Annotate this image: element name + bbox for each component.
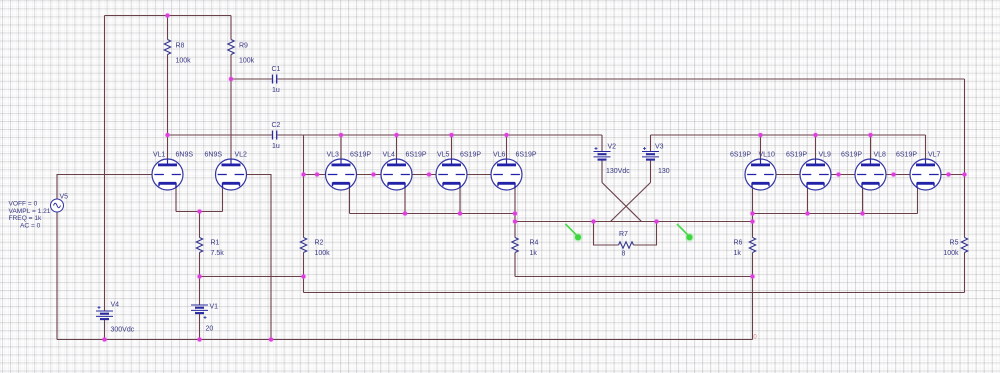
wire: anode drop VL8 bbox=[870, 135, 872, 160]
wire: R1-R2 bottom tie bbox=[200, 276, 304, 278]
wire: VL1-VL2 cathode tie bbox=[176, 211, 223, 213]
junction: R1 bottom node bbox=[198, 275, 202, 279]
svg-text:R6: R6 bbox=[734, 240, 743, 247]
resistor R6 bbox=[749, 238, 755, 253]
battery V2 plus mark bbox=[595, 147, 598, 150]
sine source V5 bbox=[51, 199, 64, 212]
triode VL3 bbox=[326, 159, 357, 190]
wire: R7 loop left bbox=[594, 222, 619, 246]
svg-text:100k: 100k bbox=[315, 250, 331, 257]
svg-text:100k: 100k bbox=[239, 58, 255, 65]
svg-text:VL3: VL3 bbox=[327, 152, 340, 159]
svg-text:VOFF = 0: VOFF = 0 bbox=[9, 201, 38, 208]
wire: anode drop VL3 bbox=[340, 135, 342, 160]
svg-text:1u: 1u bbox=[272, 143, 280, 150]
wire: VL6 cathode lead bbox=[514, 184, 516, 214]
wire: R7 loop right bbox=[634, 222, 657, 246]
battery V4 plus mark bbox=[98, 306, 101, 309]
wire: C2 output vertical down to R2 bbox=[303, 135, 305, 238]
junction: C2 drop/grid bus bbox=[302, 173, 306, 177]
wire: V3 crossover diagonal bbox=[611, 183, 651, 222]
svg-text:1u: 1u bbox=[272, 87, 280, 94]
battery V2 bbox=[594, 152, 611, 160]
svg-text:6S19P: 6S19P bbox=[350, 152, 371, 159]
battery V3 plus mark bbox=[643, 147, 646, 150]
svg-text:6S19P: 6S19P bbox=[460, 152, 481, 159]
svg-text:C2: C2 bbox=[272, 122, 281, 129]
svg-text:300Vdc: 300Vdc bbox=[111, 327, 135, 334]
junction: crossover line/R7 left bbox=[592, 220, 596, 224]
wire: VL5 cathode lead bbox=[459, 184, 461, 214]
wire: V1 bottom lead bbox=[199, 314, 201, 340]
triode VL1 bbox=[152, 159, 183, 190]
svg-text:VL5: VL5 bbox=[437, 152, 450, 159]
junction: R4-R6 bottom node bbox=[751, 275, 755, 279]
svg-text:V4: V4 bbox=[111, 302, 120, 309]
triode VL7 (mirrored) bbox=[910, 159, 941, 190]
wire: R4 to R6 bottom tie bbox=[515, 276, 753, 278]
wire: C1 right vertical drop to R5 bbox=[964, 79, 966, 238]
wire: R6 top lead bbox=[752, 214, 754, 238]
svg-text:6S19P: 6S19P bbox=[896, 152, 917, 159]
svg-text:6S19P: 6S19P bbox=[406, 152, 427, 159]
junction: anode bus/VL4 bbox=[395, 133, 399, 137]
resistor R7 (horizontal) bbox=[619, 242, 634, 248]
battery V1 plus mark bbox=[204, 316, 207, 319]
resistor R5 bbox=[961, 238, 967, 253]
junction: rail/V4 bbox=[103, 338, 107, 342]
wire: anode drop VL6 bbox=[506, 135, 508, 160]
svg-text:VL2: VL2 bbox=[235, 152, 248, 159]
junction: VL4 grid pin bbox=[372, 173, 376, 177]
svg-text:VL6: VL6 bbox=[493, 152, 506, 159]
svg-text:6S19P: 6S19P bbox=[516, 152, 537, 159]
junction: anode bus/VL10 bbox=[759, 133, 763, 137]
wire: anode drop VL10 bbox=[760, 135, 762, 160]
wire: VL2 grid to ground rail bbox=[231, 175, 271, 340]
svg-text:R1: R1 bbox=[211, 240, 220, 247]
junction: crossover line/R4 bbox=[513, 220, 517, 224]
junction: VL3 grid pin bbox=[315, 173, 319, 177]
wire: V1 top lead bbox=[199, 277, 201, 306]
wire: R8 leads and VL1 anode drop bbox=[167, 16, 169, 160]
resistor R1 bbox=[196, 238, 202, 253]
battery V1 bbox=[191, 305, 208, 313]
wire: VL1 cathode lead bbox=[175, 184, 177, 212]
current probe marker left bbox=[566, 224, 583, 242]
wire: bottom ground rail bbox=[57, 339, 753, 341]
wire: V5 to VL1 grid bbox=[57, 175, 168, 200]
triode VL8 (mirrored) bbox=[855, 159, 886, 190]
junction: anode bus/VL5 bbox=[450, 133, 454, 137]
wire: R2 bottom lead bbox=[303, 253, 305, 293]
wire: V2 top lead from left bus bbox=[601, 135, 603, 151]
svg-text:R5: R5 bbox=[950, 240, 959, 247]
svg-text:130: 130 bbox=[658, 168, 670, 175]
svg-text:V1: V1 bbox=[210, 304, 219, 311]
junction: left cathode bus/VL5 bbox=[458, 212, 462, 216]
svg-text:6N9S: 6N9S bbox=[176, 152, 194, 159]
wire: anode drop VL4 bbox=[396, 135, 398, 160]
V5 parameter text block bbox=[9, 201, 51, 230]
wire: left grid bus to VL3..VL6 bbox=[304, 174, 507, 176]
junction: anode bus/VL6 bbox=[505, 133, 509, 137]
svg-text:AC = 0: AC = 0 bbox=[20, 223, 41, 230]
wire: VL10 cathode lead bbox=[752, 184, 754, 214]
capacitor C1 bbox=[273, 75, 277, 84]
svg-text:130Vdc: 130Vdc bbox=[606, 168, 630, 175]
junction: anode bus/VL3 bbox=[339, 133, 343, 137]
wire: cathode feedback line to R5 bbox=[304, 292, 965, 294]
wire: anode drop VL5 bbox=[451, 135, 453, 160]
svg-text:100k: 100k bbox=[176, 58, 192, 65]
svg-text:1k: 1k bbox=[734, 250, 742, 257]
junction: VL5 grid pin bbox=[427, 173, 431, 177]
svg-text:6S19P: 6S19P bbox=[841, 152, 862, 159]
svg-text:V2: V2 bbox=[608, 144, 617, 151]
wire: V2 crossover diagonal bbox=[602, 183, 642, 222]
wire: VL8 cathode lead bbox=[862, 184, 864, 214]
resistor R4 bbox=[512, 238, 518, 253]
junction: rail/VL2 grid drop bbox=[269, 338, 273, 342]
svg-text:1k: 1k bbox=[530, 250, 538, 257]
wire: V3 bottom lead bbox=[650, 161, 652, 183]
wire: VL4 cathode lead bbox=[404, 184, 406, 214]
triode VL6 bbox=[491, 159, 522, 190]
junction: grid bus/C1 drop bbox=[963, 173, 967, 177]
svg-text:VL1: VL1 bbox=[153, 152, 166, 159]
wire: R6 bottom to ground rail bbox=[752, 253, 754, 340]
junction: VL1-VL2 cathodes/R1 bbox=[198, 210, 202, 214]
capacitor C2 bbox=[273, 131, 277, 140]
wire: R1 top lead bbox=[199, 212, 201, 238]
junction: right cathode bus/VL8 bbox=[861, 212, 865, 216]
wire: V4 bottom lead bbox=[104, 320, 106, 340]
wire: right cathode bus bbox=[753, 213, 918, 215]
junction: left cathode bus/VL4 bbox=[403, 212, 407, 216]
svg-text:6N9S: 6N9S bbox=[205, 152, 223, 159]
wire: VL9 cathode lead bbox=[807, 184, 809, 214]
resistor R8 bbox=[164, 40, 170, 55]
wire: VL7 cathode lead bbox=[917, 184, 919, 214]
junction: VL9 grid pin bbox=[837, 173, 841, 177]
wire: left vertical from rail down to V4 bbox=[104, 16, 106, 312]
svg-text:R7: R7 bbox=[619, 231, 628, 238]
svg-text:0: 0 bbox=[753, 335, 757, 341]
wire: R4 bottom lead bbox=[514, 253, 516, 277]
wire: C2 net from VL1 anode to left anode bus bbox=[168, 134, 603, 136]
junction: R2 bottom node bbox=[302, 275, 306, 279]
wire: right anode bus from V3 to VL7 bbox=[651, 134, 926, 136]
svg-text:V5: V5 bbox=[60, 194, 69, 201]
svg-text:20: 20 bbox=[206, 326, 214, 333]
junction: VL7 grid pin bbox=[947, 173, 951, 177]
svg-text:FREQ = 1k: FREQ = 1k bbox=[9, 215, 42, 222]
junction: R9/C1 bbox=[229, 77, 233, 81]
junction: anode bus/VL8 bbox=[869, 133, 873, 137]
triode VL5 bbox=[436, 159, 467, 190]
junction: crossover line/R6 bbox=[751, 220, 755, 224]
battery V3 bbox=[642, 152, 659, 160]
resistor R9 bbox=[228, 40, 234, 55]
svg-text:VAMPL = 1.21: VAMPL = 1.21 bbox=[9, 208, 51, 215]
svg-text:VL7: VL7 bbox=[928, 152, 941, 159]
triode VL10 (mirrored) bbox=[745, 159, 776, 190]
wire: anode drop VL9 bbox=[815, 135, 817, 160]
junction: rail/R8 bbox=[166, 14, 170, 18]
svg-text:V3: V3 bbox=[655, 144, 664, 151]
svg-text:6S19P: 6S19P bbox=[730, 152, 751, 159]
svg-text:R8: R8 bbox=[176, 43, 185, 50]
svg-text:VL10: VL10 bbox=[759, 152, 775, 159]
wire: top plate-supply rail bbox=[105, 15, 232, 17]
svg-text:100k: 100k bbox=[943, 250, 959, 257]
svg-text:7.5k: 7.5k bbox=[211, 250, 225, 257]
svg-text:R4: R4 bbox=[530, 240, 539, 247]
junction: right cathode bus/VL10/R6 bbox=[751, 212, 755, 216]
wire: R1 bottom lead to node bbox=[199, 253, 201, 277]
wire: VL2 cathode lead bbox=[222, 184, 224, 212]
resistor R2 bbox=[300, 238, 306, 253]
svg-text:VL9: VL9 bbox=[819, 152, 832, 159]
wire: V2 bottom lead bbox=[601, 161, 603, 183]
triode VL4 bbox=[381, 159, 412, 190]
svg-text:VL8: VL8 bbox=[874, 152, 887, 159]
svg-text:R9: R9 bbox=[239, 43, 248, 50]
wire: right grid bus VL10..VL7 to C1 drop bbox=[761, 174, 965, 176]
junction: VL8 grid pin bbox=[892, 173, 896, 177]
wire: R9 leads and VL2 anode drop bbox=[230, 16, 232, 160]
battery V4 bbox=[96, 311, 113, 319]
wire: V5 bottom lead to rail bbox=[56, 212, 58, 340]
junction: left cathode bus/VL6/R4 bbox=[513, 212, 517, 216]
svg-text:R2: R2 bbox=[315, 240, 324, 247]
wire: V3 top lead to right bus bbox=[650, 135, 652, 151]
wire: crossover node line bbox=[515, 221, 753, 223]
wire: R5 bottom lead bbox=[964, 253, 966, 293]
current probe marker right bbox=[677, 224, 694, 242]
wire: R4 top lead bbox=[514, 214, 516, 238]
wire: VL3 cathode lead bbox=[349, 184, 351, 214]
junction: rail/V1 bbox=[198, 338, 202, 342]
wire: C1 net from R9 node to right drop bbox=[231, 78, 965, 80]
junction: VL1 anode/C2 bbox=[166, 133, 170, 137]
wire: anode drop VL7 bbox=[925, 135, 927, 160]
svg-text:C1: C1 bbox=[272, 66, 281, 73]
junction: anode bus/VL9 bbox=[814, 133, 818, 137]
triode VL9 (mirrored) bbox=[800, 159, 831, 190]
svg-text:6S19P: 6S19P bbox=[786, 152, 807, 159]
wire: left cathode bus bbox=[350, 213, 516, 215]
svg-text:8: 8 bbox=[622, 251, 626, 258]
junction: crossover line/R7 right bbox=[655, 220, 659, 224]
triode VL2 (mirrored) bbox=[216, 159, 247, 190]
svg-text:VL4: VL4 bbox=[383, 152, 396, 159]
junction: right cathode bus/VL9 bbox=[806, 212, 810, 216]
